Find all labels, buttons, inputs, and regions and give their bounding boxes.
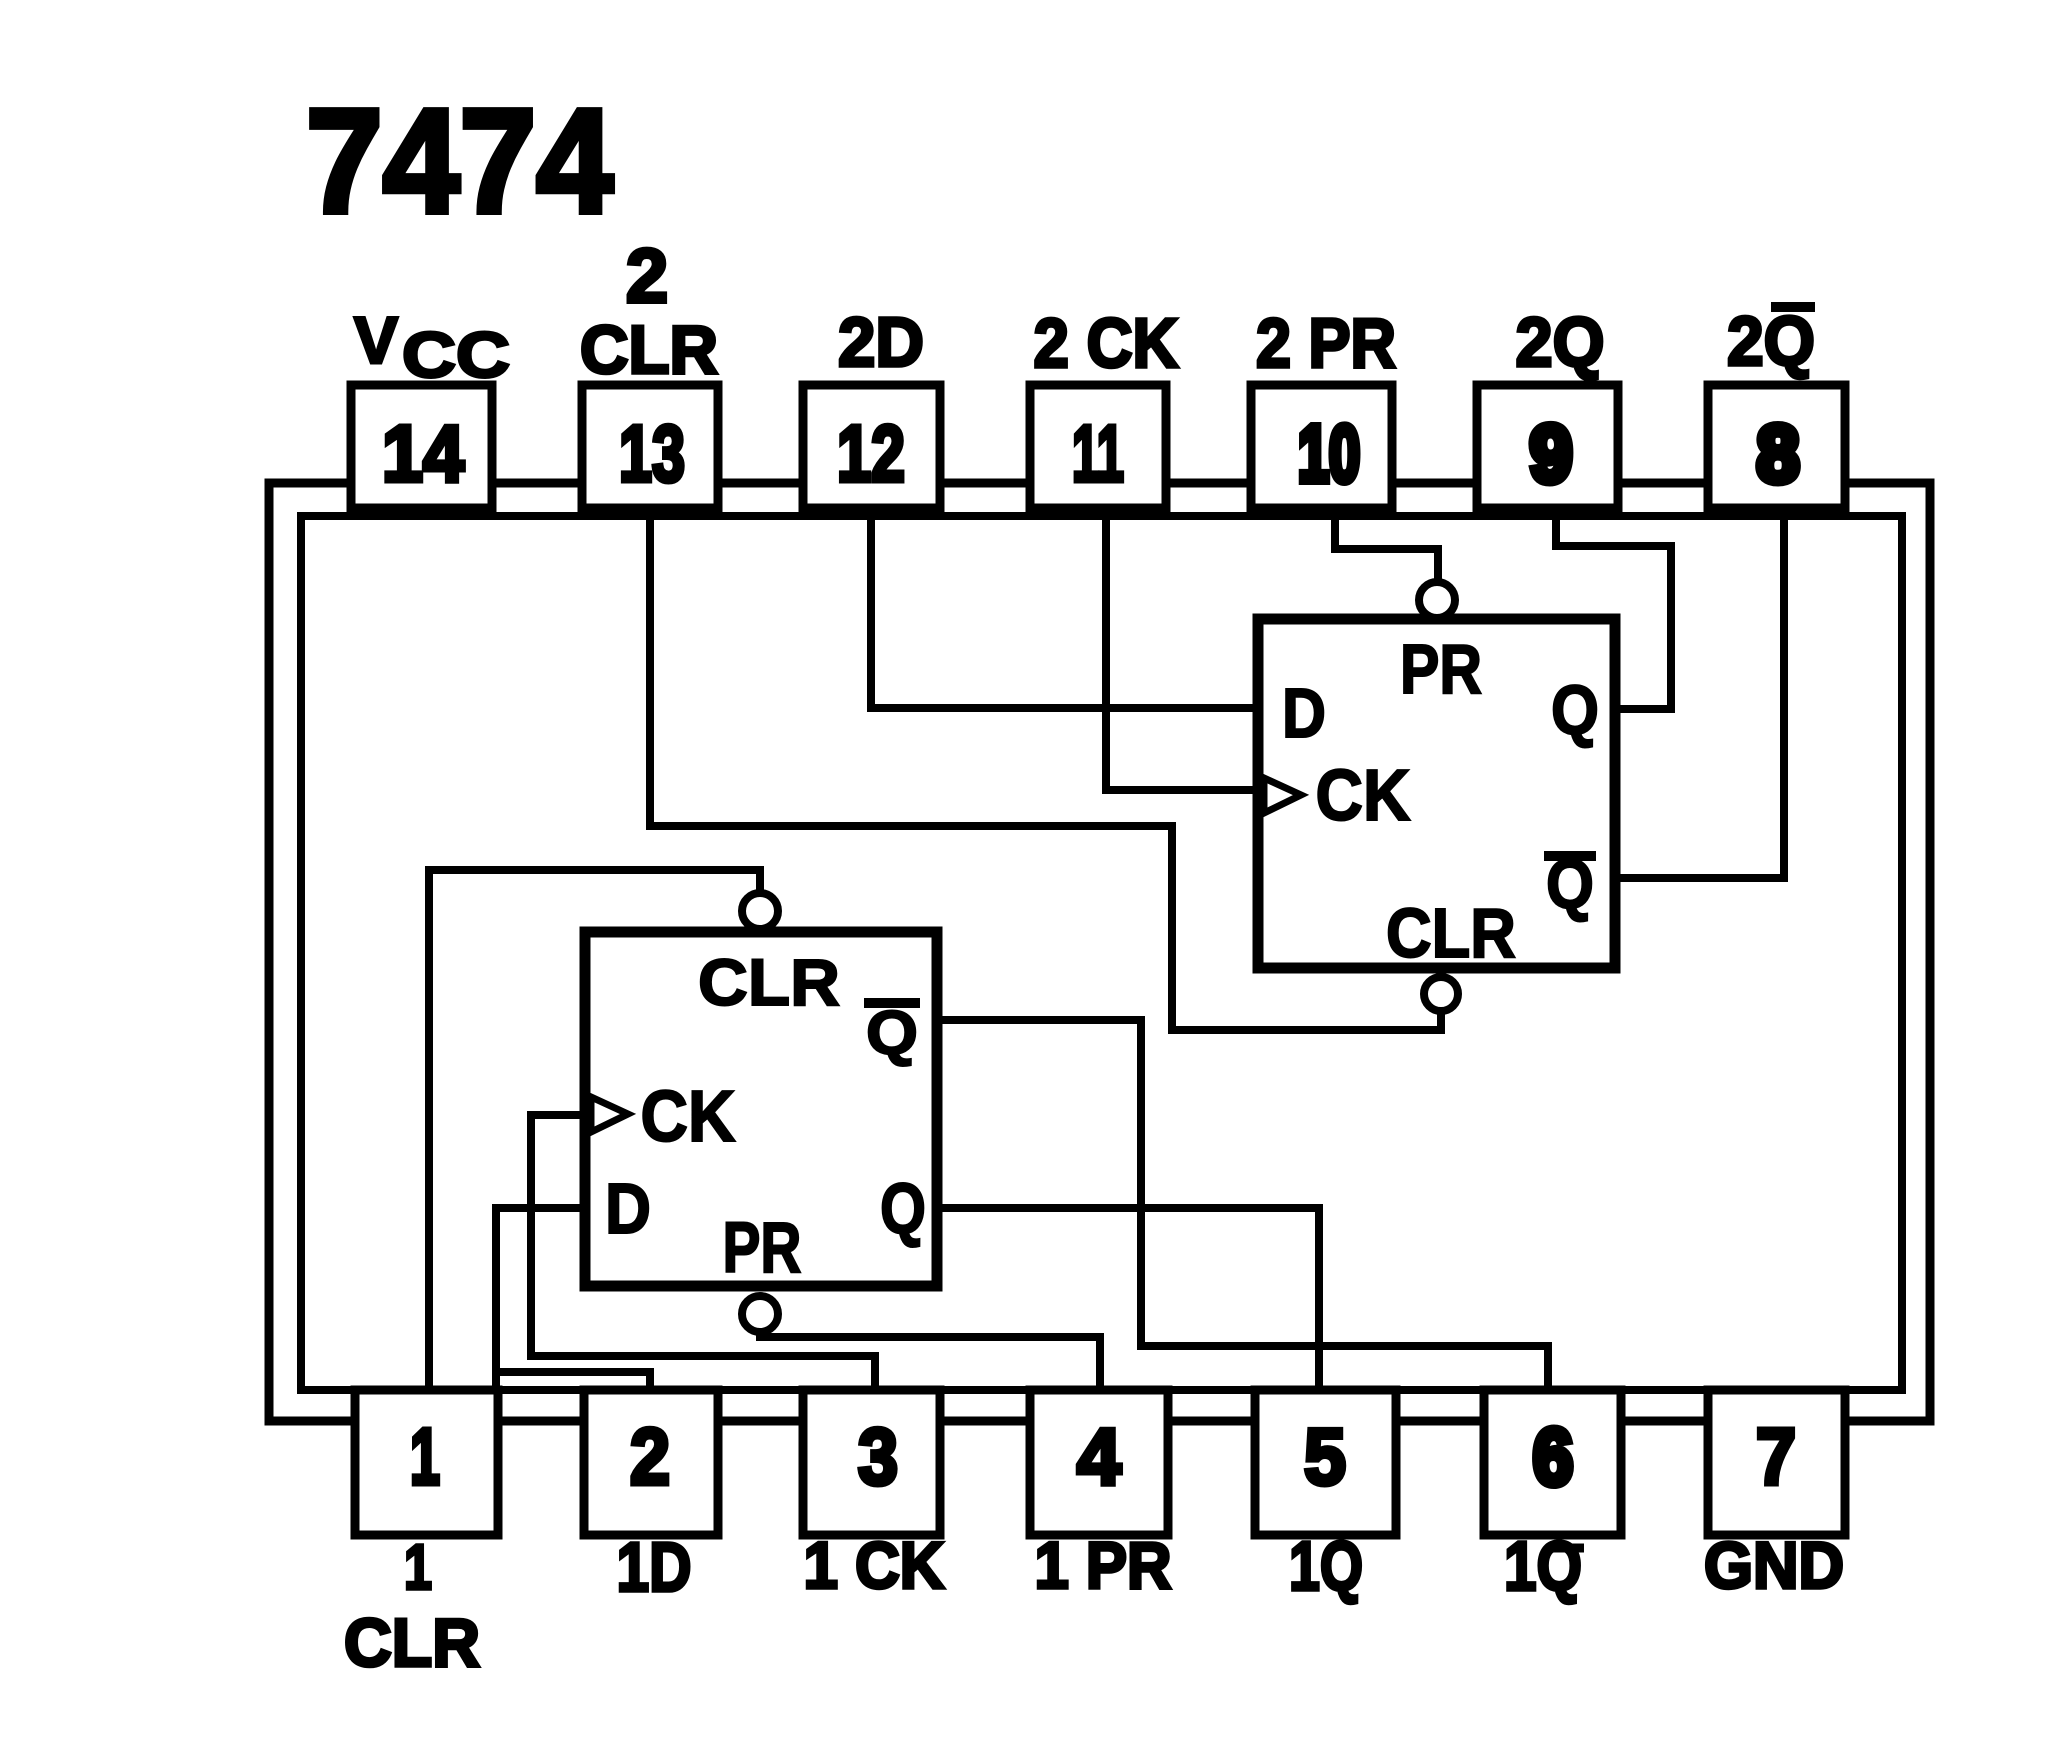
svg-text:1 PR: 1 PR <box>1035 1528 1172 1602</box>
svg-text:7: 7 <box>1756 1412 1796 1501</box>
pin 12 box <box>803 385 940 508</box>
svg-text:2 CK: 2 CK <box>1034 304 1179 382</box>
FF2 CLR bubble <box>1424 977 1458 1011</box>
pin 7 box <box>1708 1390 1845 1535</box>
svg-text:V: V <box>354 303 398 377</box>
svg-text:2: 2 <box>626 234 668 319</box>
svg-text:1: 1 <box>410 1412 440 1501</box>
svg-text:PR: PR <box>1400 630 1482 708</box>
svg-text:11: 11 <box>1072 409 1124 498</box>
svg-text:1Q: 1Q <box>1289 1527 1363 1605</box>
svg-text:7474: 7474 <box>306 79 613 244</box>
FF2 PR bubble <box>1419 582 1455 618</box>
pin 14 box <box>351 385 492 508</box>
wire pin9 (2Q) to FF2 Q output <box>1556 516 1671 709</box>
svg-text:8: 8 <box>1757 409 1799 498</box>
svg-text:2D: 2D <box>838 303 924 381</box>
pin 11 box <box>1030 385 1166 508</box>
wire pin2 (1D) to FF1 D input <box>496 1208 650 1388</box>
wire pin8 (2Qbar) to FF2 Qbar output <box>1611 516 1784 878</box>
svg-text:Q: Q <box>1551 671 1599 749</box>
FF1 clock triangle <box>591 1097 628 1132</box>
svg-text:CC: CC <box>402 319 510 391</box>
svg-text:GND: GND <box>1704 1528 1844 1602</box>
svg-text:3: 3 <box>858 1412 898 1501</box>
svg-text:6: 6 <box>1533 1412 1573 1501</box>
svg-text:9: 9 <box>1530 409 1572 498</box>
svg-text:D: D <box>1282 674 1326 752</box>
svg-text:D: D <box>605 1170 651 1249</box>
svg-text:CLR: CLR <box>580 312 718 388</box>
svg-text:Q: Q <box>880 1170 926 1249</box>
svg-text:CK: CK <box>1316 756 1411 836</box>
svg-text:4: 4 <box>1077 1412 1121 1501</box>
svg-text:1D: 1D <box>617 1528 692 1606</box>
wire pin1 (1CLR) to FF1 CLR bubble <box>429 870 760 1388</box>
svg-text:CLR: CLR <box>1386 894 1516 972</box>
wire stub at pin1 box corner <box>492 1372 500 1392</box>
pin 4 box <box>1030 1390 1168 1535</box>
IC package outline inner <box>301 516 1902 1390</box>
wire FF1 Q output to pin5 (1Q) <box>933 1208 1319 1388</box>
svg-text:CLR: CLR <box>344 1605 480 1681</box>
pin 5 box <box>1255 1390 1396 1535</box>
FF1 CLR bubble <box>742 893 778 929</box>
svg-text:CK: CK <box>641 1077 736 1157</box>
svg-text:CLR: CLR <box>698 945 840 1019</box>
wire FF1 PR bubble to pin4 (1PR) <box>760 1332 1100 1388</box>
wire pin3 (1CK) to FF1 CK input <box>531 1115 875 1388</box>
svg-text:5: 5 <box>1304 1412 1346 1501</box>
wire pin12 (2D) to FF2 D input <box>871 516 1262 708</box>
pin 10 box <box>1251 385 1392 508</box>
svg-text:2Q: 2Q <box>1516 303 1605 381</box>
wire pin11 (2CK) to FF2 CK input <box>1106 516 1262 790</box>
flip-flop U1B body (FF2) <box>1258 619 1615 968</box>
svg-text:Q: Q <box>866 999 918 1068</box>
svg-text:1Q: 1Q <box>1504 1527 1582 1605</box>
pin 13 box <box>582 385 718 508</box>
pin 3 box <box>803 1390 940 1535</box>
FF1 PR bubble <box>742 1296 778 1332</box>
pin 8 box <box>1708 385 1845 508</box>
IC package outline outer <box>269 483 1930 1421</box>
svg-text:13: 13 <box>619 409 685 498</box>
wire FF1 Qbar output to pin6 (1Qbar) <box>933 1020 1548 1388</box>
svg-text:14: 14 <box>382 409 464 498</box>
svg-text:12: 12 <box>837 409 905 498</box>
wire pin13 (2CLR) to FF2 CLR bubble <box>650 516 1441 1030</box>
svg-text:2 PR: 2 PR <box>1256 304 1396 382</box>
svg-text:10: 10 <box>1298 409 1360 498</box>
FF2 clock triangle <box>1264 778 1301 813</box>
pin 2 box <box>584 1390 718 1535</box>
svg-text:2: 2 <box>630 1412 670 1501</box>
wire pin10 (2PR) to FF2 PR bubble <box>1335 516 1438 582</box>
svg-text:1: 1 <box>404 1531 432 1603</box>
svg-text:2Q: 2Q <box>1727 302 1815 380</box>
pin 1 box <box>355 1390 498 1535</box>
svg-text:PR: PR <box>723 1209 802 1288</box>
pin 6 box <box>1484 1390 1621 1535</box>
flip-flop U1A body (FF1) <box>585 932 937 1286</box>
pin 9 box <box>1477 385 1618 508</box>
svg-text:1 CK: 1 CK <box>804 1528 945 1602</box>
